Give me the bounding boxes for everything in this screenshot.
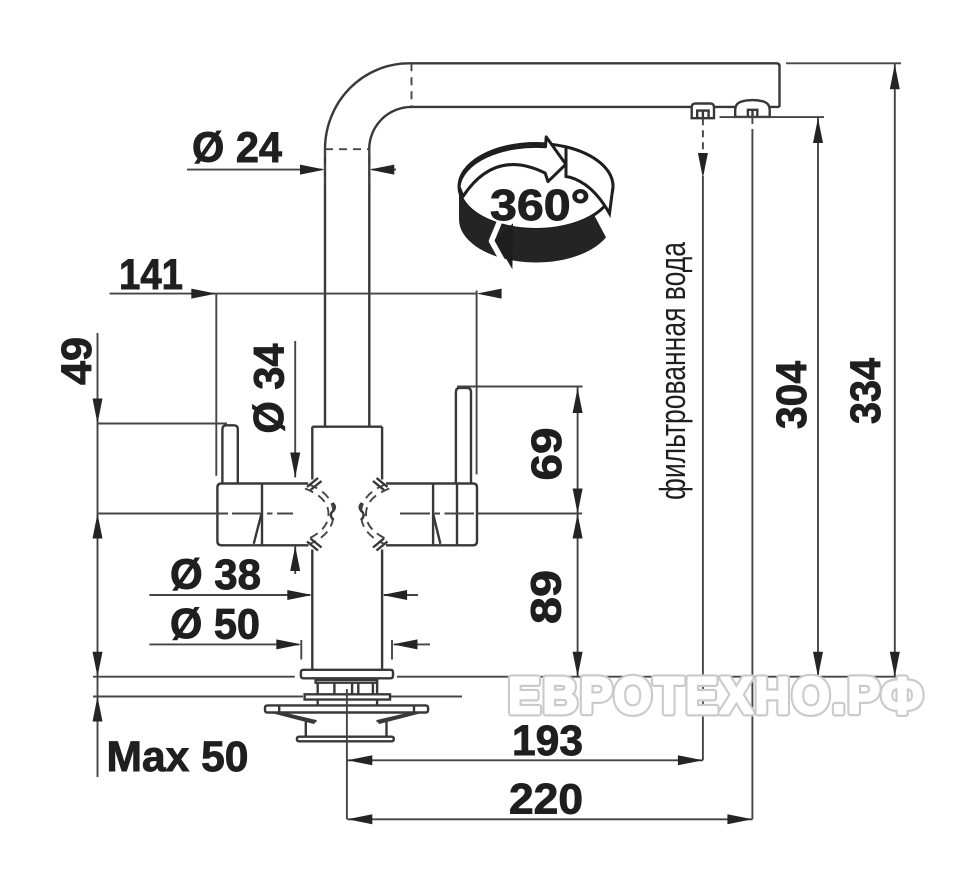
dim line 334 bbox=[894, 63, 896, 676]
counter plate 2 bbox=[316, 680, 378, 683]
svg-text:Ø 50: Ø 50 bbox=[170, 601, 260, 649]
dim line diameter24 bbox=[187, 169, 396, 171]
valve centerline left bbox=[98, 513, 294, 515]
riser pipe left edge bbox=[324, 149, 326, 427]
right lever handle bbox=[456, 388, 471, 483]
ring black band bbox=[459, 187, 606, 263]
left bulge break squiggle bbox=[331, 503, 335, 520]
spout elbow outer curve bbox=[325, 63, 409, 149]
arrow d34 bottom bbox=[290, 546, 300, 571]
left cone brace bbox=[274, 713, 317, 723]
svg-text:334: 334 bbox=[842, 358, 890, 424]
elbow tangent dashed horizontal bbox=[325, 148, 369, 150]
right valve cap line bbox=[456, 484, 458, 546]
break tick top-left bbox=[307, 478, 322, 490]
right valve diagonal mark bbox=[433, 514, 440, 544]
right valve division line bbox=[432, 484, 434, 546]
svg-text:304: 304 bbox=[768, 361, 816, 429]
washer plate bbox=[305, 694, 390, 699]
arrow d24 left bbox=[300, 165, 325, 175]
ring white band right piece bbox=[566, 147, 613, 214]
filtered water aerator (small outlet) bbox=[692, 104, 714, 119]
body lower left side bbox=[311, 550, 313, 670]
arrow 69 bottom bbox=[573, 489, 583, 514]
left valve cylinder bbox=[217, 484, 308, 546]
right bulge break squiggle bbox=[360, 503, 364, 520]
lower stem left bbox=[305, 722, 307, 737]
svg-text:Max 50: Max 50 bbox=[107, 733, 249, 781]
shank below washer bbox=[318, 700, 377, 705]
body upper right side bbox=[381, 427, 383, 480]
arrow 193 left bbox=[347, 755, 372, 765]
valve centerline right bbox=[400, 513, 582, 515]
body lower right side bbox=[381, 550, 383, 670]
spout elbow inner curve bbox=[369, 107, 411, 149]
break tick top-right bbox=[373, 478, 388, 490]
arrow 69 top bbox=[573, 388, 583, 413]
svg-text:360°: 360° bbox=[490, 181, 590, 230]
svg-text:220: 220 bbox=[509, 776, 583, 824]
ext line 141 left bbox=[215, 294, 217, 476]
svg-text:89: 89 bbox=[523, 570, 571, 624]
arrow 141 right bbox=[477, 289, 502, 299]
countertop line bbox=[93, 676, 896, 678]
right cone brace bbox=[377, 713, 420, 723]
arrow d50 right bbox=[393, 639, 418, 649]
arrow d34 top bbox=[290, 453, 300, 478]
ext line 49 top bbox=[98, 423, 228, 425]
mounting flange bbox=[265, 705, 428, 712]
ring top rim ellipse bbox=[459, 144, 613, 230]
ring black arrow bbox=[495, 223, 513, 269]
spout pipe right end edge bbox=[778, 65, 780, 107]
arrow d50 left bbox=[276, 639, 301, 649]
ext line pipe top right bbox=[786, 62, 901, 64]
arrow d38 right bbox=[382, 590, 407, 600]
dim line diameter34 bbox=[294, 341, 296, 574]
arrow 49 bottom bbox=[93, 514, 103, 539]
elbow tangent dashed vertical bbox=[411, 63, 413, 107]
tick d50 left bbox=[300, 640, 302, 660]
svg-text:ЕВРОТЕХНО.РФ: ЕВРОТЕХНО.РФ bbox=[508, 667, 925, 724]
dim line 141 bbox=[110, 293, 477, 295]
dome aerator inner detail bbox=[748, 110, 757, 117]
dim line diameter50 bbox=[149, 643, 430, 645]
dim line 220 bbox=[347, 818, 752, 820]
mounting flange inner ticks bbox=[279, 705, 414, 712]
svg-text:Ø 38: Ø 38 bbox=[170, 551, 261, 599]
riser pipe right edge bbox=[368, 149, 370, 427]
rotation ring 360 bbox=[459, 137, 613, 270]
right valve cylinder bbox=[386, 484, 477, 546]
left valve diagonal mark bbox=[254, 514, 262, 544]
ext line 69 top bbox=[457, 386, 583, 388]
arrow 89 bottom bbox=[573, 652, 583, 677]
left valve division line bbox=[261, 484, 263, 546]
arrow max50 bottom bbox=[93, 697, 103, 722]
break tick bottom-right bbox=[373, 539, 388, 551]
arrow max50 top bbox=[93, 652, 103, 677]
left valve intersection bulge dashed inner bbox=[305, 489, 329, 541]
filtered outlet centerline with arrow bbox=[702, 118, 704, 152]
arrow 304 top bbox=[813, 118, 823, 143]
ring black arrow gap bbox=[492, 221, 507, 269]
ring white band with arrow bbox=[459, 137, 566, 197]
arrow 334 top bbox=[890, 64, 900, 89]
dim line 69-89 vertical bbox=[577, 387, 579, 677]
spout pipe bottom line segments bbox=[412, 106, 780, 108]
arrow 141 left bbox=[191, 289, 216, 299]
arrow 89 top bbox=[573, 514, 583, 539]
spout horizontal pipe top line bbox=[409, 63, 780, 66]
dim line diameter38 bbox=[149, 594, 418, 596]
faucet centerline lower bbox=[346, 689, 348, 819]
arrow 220 right bbox=[727, 814, 752, 824]
svg-text:Ø 34: Ø 34 bbox=[246, 343, 294, 433]
svg-text:193: 193 bbox=[512, 717, 583, 765]
arrow 49 top bbox=[93, 399, 103, 424]
filtered aerator inner detail bbox=[697, 111, 708, 118]
main spout aerator dome bbox=[735, 100, 770, 117]
dim line 304 bbox=[817, 117, 819, 677]
right valve intersection bulge dashed bbox=[361, 485, 385, 545]
svg-text:фильтрованная вода: фильтрованная вода bbox=[652, 241, 693, 500]
ext line 141 right bbox=[476, 291, 478, 475]
ext line aerator bottom bbox=[720, 116, 825, 118]
svg-text:49: 49 bbox=[53, 337, 101, 385]
arrow 193 right bbox=[678, 755, 703, 765]
arrow filtered down bbox=[698, 153, 708, 178]
body shoulder bbox=[312, 426, 382, 428]
max thickness line bbox=[93, 696, 462, 698]
lower stem right bbox=[385, 722, 387, 737]
svg-text:141: 141 bbox=[119, 251, 183, 299]
arrow d24 right bbox=[369, 165, 394, 175]
arrow 334 bottom bbox=[890, 652, 900, 677]
dim line 49 and max50 vertical bbox=[97, 333, 99, 777]
left valve intersection bulge dashed bbox=[309, 485, 334, 545]
shank vertical lines bbox=[318, 683, 377, 694]
arrow 220 left bbox=[347, 814, 372, 824]
arrow d38 left bbox=[287, 590, 312, 600]
right valve intersection bulge dashed inner bbox=[366, 489, 389, 541]
main outlet centerline bbox=[751, 117, 753, 130]
base escutcheon flange bbox=[301, 670, 393, 679]
svg-text:Ø 24: Ø 24 bbox=[192, 124, 282, 172]
locknut plate bbox=[297, 737, 394, 742]
arrow 304 bottom bbox=[813, 652, 823, 677]
svg-text:69: 69 bbox=[523, 428, 571, 481]
break tick bottom-left bbox=[307, 539, 322, 551]
dim line 193 bbox=[347, 759, 703, 761]
dashed pipe section d24 bbox=[325, 149, 369, 190]
left lever handle bbox=[222, 425, 237, 483]
tick d50 right bbox=[391, 640, 393, 660]
body upper left side bbox=[311, 427, 313, 480]
